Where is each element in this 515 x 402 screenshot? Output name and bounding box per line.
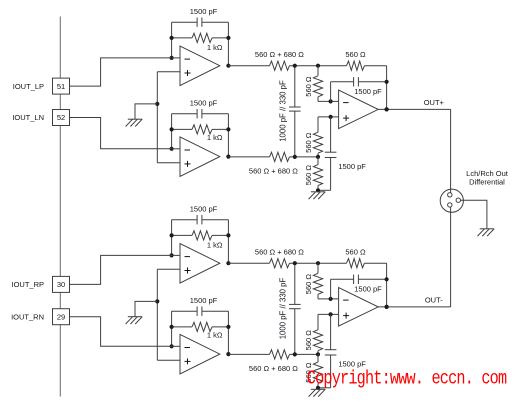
svg-text:1500 pF: 1500 pF (190, 7, 218, 16)
resistor R7 1 kΩ (U5 feedback) (172, 322, 229, 339)
resistor R2 1 kΩ (U2 feedback) (172, 125, 229, 142)
pin 30 box (53, 276, 70, 292)
wire U5 feedback left (171, 311, 173, 346)
capacitor C4 1500 pF (feedback, U3) (331, 77, 387, 101)
wire U5 non-inverting input (157, 359, 180, 361)
chip boundary line (59, 17, 61, 397)
svg-text:1500 pF: 1500 pF (338, 162, 366, 171)
capacitor C11 1000 pF // 330 pF (279, 263, 301, 354)
capacitor C6 1500 pF (U4 feedback) (172, 205, 229, 225)
svg-text:560 Ω: 560 Ω (345, 248, 366, 257)
svg-text:560 Ω + 680 Ω: 560 Ω + 680 Ω (255, 248, 304, 257)
wire U3 lower signal row (228, 156, 318, 158)
svg-text:1 kΩ: 1 kΩ (207, 240, 223, 249)
svg-text:Differential: Differential (469, 178, 505, 187)
wire connector shield to ground (461, 200, 487, 229)
node ground junction (316, 386, 320, 390)
svg-text:560 Ω: 560 Ω (345, 50, 366, 59)
op-amp U6 (339, 288, 379, 327)
ground GND1 (126, 119, 143, 126)
connector J1 (Lch/Rch differential jack) (440, 189, 463, 212)
wire to U6 inverting input (318, 297, 339, 301)
wire U1 feedback left (171, 22, 173, 58)
svg-text:51: 51 (57, 82, 65, 91)
label IOUT_RN (11, 312, 44, 321)
svg-text:IOUT_LP: IOUT_LP (13, 82, 44, 91)
resistor R14 560 Ω (feedback, U6) (345, 248, 366, 268)
wire to ground (135, 104, 157, 119)
ground GND5 (connector) (478, 229, 495, 236)
wire U5 inverting input (172, 345, 180, 347)
wire U5 feedback right (227, 311, 229, 354)
wire U4 feedback left (171, 220, 173, 256)
resistor R6 1 kΩ (U4 feedback) (172, 231, 229, 250)
svg-text:Copyright:www. eccn. com: Copyright:www. eccn. com (307, 368, 507, 390)
node lower row / R7 (316, 155, 320, 159)
wire U2 non-inverting input (157, 162, 180, 164)
svg-text:OUT+: OUT+ (424, 98, 445, 107)
wire connector to OUT- (450, 212, 452, 307)
resistor R6 560 Ω (feedback, U3) (345, 50, 366, 70)
label OUT+ (424, 98, 445, 107)
wire to ground (135, 301, 157, 316)
svg-text:52: 52 (57, 113, 65, 122)
label IOUT_LP (13, 82, 44, 91)
ground GND2 (309, 192, 326, 199)
junction dots bridge cap (293, 64, 297, 159)
svg-text:1000 pF // 330 pF: 1000 pF // 330 pF (279, 80, 288, 142)
resistor R11 560 Ω + 680 Ω (upper) (255, 248, 304, 268)
ground GND3 (126, 317, 143, 324)
op-amp U4 (180, 244, 220, 284)
svg-text:560 Ω: 560 Ω (304, 132, 313, 153)
wire U6 lower signal row (228, 353, 318, 355)
wire to U3 inverting input (318, 99, 339, 103)
wire U1 feedback right (227, 22, 229, 65)
svg-text:30: 30 (57, 280, 65, 289)
label OUT- (425, 296, 443, 305)
wire U3 feedback right side (385, 66, 389, 112)
wire to U3 non-inverting input (318, 115, 339, 119)
svg-text:560 Ω + 680 Ω: 560 Ω + 680 Ω (249, 167, 298, 176)
svg-text:OUT-: OUT- (425, 296, 443, 305)
svg-text:IOUT_RN: IOUT_RN (11, 312, 44, 321)
capacitor C7 1500 pF (U5 feedback) (172, 296, 229, 316)
svg-text:560 Ω: 560 Ω (304, 76, 313, 97)
resistor R16 560 Ω (to ground) (304, 354, 323, 387)
capacitor C12 1500 pF (feedback, U6) (331, 275, 387, 299)
svg-text:560 Ω + 680 Ω: 560 Ω + 680 Ω (249, 364, 298, 373)
wire U4 inverting input (172, 254, 180, 256)
capacitor C13 1500 pF (+ input to ground) (318, 314, 366, 387)
svg-text:1 kΩ: 1 kΩ (207, 331, 223, 340)
resistor R15 560 Ω (lower row to + input) (304, 314, 323, 354)
junction dots U2 feedback (170, 127, 231, 158)
wire OUT- output (378, 306, 450, 308)
resistor R3 560 Ω + 680 Ω (upper) (255, 50, 304, 70)
svg-text:1 kΩ: 1 kΩ (207, 43, 223, 52)
copyright watermark (307, 368, 507, 390)
wire U6 feedback right side (385, 263, 389, 309)
svg-text:1000 pF // 330 pF: 1000 pF // 330 pF (279, 277, 288, 339)
label Lch/Rch Out Differential (466, 169, 509, 187)
junction dots U4 feedback (170, 233, 231, 265)
wire + input bias rail (156, 269, 158, 360)
wire pin 52 to U2 inverting input (70, 118, 172, 149)
node ground junction (316, 188, 320, 192)
svg-text:29: 29 (57, 312, 65, 321)
op-amp U1 (180, 46, 220, 86)
wire U1 inverting input (172, 57, 180, 59)
op-amp U3 (339, 90, 379, 129)
resistor R12 560 Ω + 680 Ω (lower) (249, 350, 298, 373)
junction dots U5 feedback (170, 325, 231, 356)
svg-text:1500 pF: 1500 pF (354, 87, 382, 96)
label IOUT_LN (12, 113, 44, 122)
wire pin 51 to U1 inverting input (70, 58, 172, 86)
capacitor C1 1500 pF (U1 feedback) (172, 7, 229, 27)
node R13 top (316, 261, 320, 265)
node bias-rail ground tap (155, 102, 159, 106)
resistor R4 560 Ω + 680 Ω (lower) (249, 152, 298, 175)
capacitor C3 1000 pF // 330 pF (279, 66, 301, 157)
svg-text:1500 pF: 1500 pF (190, 296, 218, 305)
svg-text:560 Ω + 680 Ω: 560 Ω + 680 Ω (255, 50, 304, 59)
svg-text:IOUT_RP: IOUT_RP (11, 280, 44, 289)
wire U1 non-inverting input (157, 71, 180, 73)
wire U2 feedback right (227, 114, 229, 157)
wire U4 feedback right (227, 220, 229, 264)
op-amp U2 (180, 137, 220, 177)
wire OUT+ to connector (450, 109, 452, 189)
wire pin 30 to U4 inverting input (70, 255, 172, 284)
svg-text:1500 pF: 1500 pF (190, 99, 218, 108)
node U3 output (385, 107, 389, 111)
wire U2 feedback left (171, 114, 173, 149)
op-amp U5 (180, 334, 220, 374)
resistor R13 560 Ω (to inverting input) (304, 263, 323, 299)
pin 29 box (53, 309, 70, 325)
junction dots bridge cap (293, 261, 297, 356)
pin 52 box (53, 110, 70, 126)
wire U4 non-inverting input (157, 268, 180, 270)
label IOUT_RP (11, 280, 44, 289)
wire pin 29 to U5 inverting input (70, 317, 172, 347)
svg-text:1500 pF: 1500 pF (354, 285, 382, 294)
ground GND4 (309, 389, 326, 396)
svg-text:560 Ω: 560 Ω (304, 274, 313, 295)
wire U3 upper signal row (228, 65, 386, 67)
capacitor C5 1500 pF (+ input to ground) (318, 117, 366, 190)
wire U2 inverting input (172, 148, 180, 150)
svg-text:560 Ω: 560 Ω (304, 330, 313, 351)
resistor R5 560 Ω (to inverting input) (304, 66, 323, 102)
resistor R1 1 kΩ (U1 feedback) (172, 33, 229, 52)
svg-text:1 kΩ: 1 kΩ (207, 133, 223, 142)
resistor R8 560 Ω (to ground) (304, 157, 323, 190)
svg-text:IOUT_LN: IOUT_LN (12, 113, 44, 122)
node lower row / R15 (316, 352, 320, 356)
wire + input bias rail (156, 72, 158, 163)
wire to U6 non-inverting input (318, 312, 339, 316)
svg-text:560 Ω: 560 Ω (304, 165, 313, 186)
junction dots U1 feedback (170, 36, 231, 68)
node bias-rail ground tap (155, 299, 159, 303)
resistor R7 560 Ω (lower row to + input) (304, 117, 323, 157)
node U6 output (385, 305, 389, 309)
capacitor C2 1500 pF (U2 feedback) (172, 99, 229, 119)
wire U6 upper signal row (228, 262, 386, 264)
wire OUT+ output (378, 108, 450, 110)
node R5 top (316, 64, 320, 68)
pin 51 box (53, 78, 70, 94)
svg-text:1500 pF: 1500 pF (190, 205, 218, 214)
